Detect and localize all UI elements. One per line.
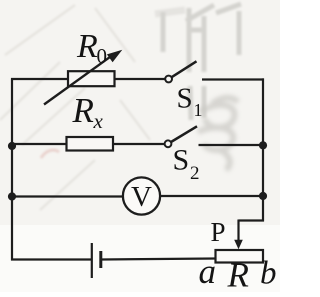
slider arrow P: [234, 240, 243, 250]
svg-text:R: R: [72, 91, 94, 130]
wire second branch left segment: [11, 143, 67, 145]
wire voltmeter branch left segment: [11, 195, 123, 197]
svg-text:b: b: [260, 256, 277, 292]
wire voltmeter branch right segment: [160, 195, 264, 197]
svg-text:R: R: [227, 256, 249, 293]
svg-text:0: 0: [97, 44, 108, 68]
rheostat R body: [216, 250, 264, 263]
switch S1 lever: [172, 61, 197, 77]
switch S2 pivot: [165, 140, 172, 147]
battery cell: short negative plate: [99, 251, 102, 268]
svg-text:S: S: [173, 144, 190, 177]
svg-text:S: S: [177, 83, 193, 115]
wire top branch middle segment: [114, 78, 166, 80]
wire bottom branch right segment: [102, 259, 217, 260]
background scan streaks: [0, 5, 150, 210]
wire top branch right segment: [202, 78, 264, 80]
svg-text:R: R: [76, 28, 98, 65]
resistor R0 body: [68, 71, 115, 86]
wire bottom branch left segment: [11, 258, 91, 260]
wire elbow from right bus to slider: [239, 220, 265, 241]
svg-text:1: 1: [194, 100, 203, 120]
node junction right voltmeter: [259, 192, 267, 200]
bleed-through ghost glyph top right: [155, 4, 241, 120]
wire second branch middle segment: [112, 143, 165, 145]
arrow through R0 (variable): [44, 50, 122, 105]
node junction left voltmeter: [8, 192, 16, 200]
switch S2 lever: [171, 126, 197, 142]
wire right vertical bus: [262, 78, 264, 221]
resistor Rx body: [67, 137, 114, 151]
svg-text:2: 2: [190, 163, 200, 184]
wire second branch right segment: [199, 144, 265, 146]
battery cell: long positive plate: [91, 243, 93, 278]
bleed-through blob mid right: [198, 98, 238, 170]
wire left vertical bus: [11, 78, 13, 260]
switch S1 pivot: [165, 76, 172, 83]
svg-text:x: x: [93, 109, 104, 133]
node junction right branch2: [259, 141, 267, 149]
wire top branch left segment: [11, 78, 68, 80]
svg-text:V: V: [131, 181, 152, 213]
svg-text:P: P: [211, 217, 226, 247]
node junction left branch2: [8, 142, 16, 150]
voltmeter U: circle: [123, 177, 160, 214]
svg-text:a: a: [199, 252, 217, 291]
faint pink scan mark: [41, 150, 59, 158]
